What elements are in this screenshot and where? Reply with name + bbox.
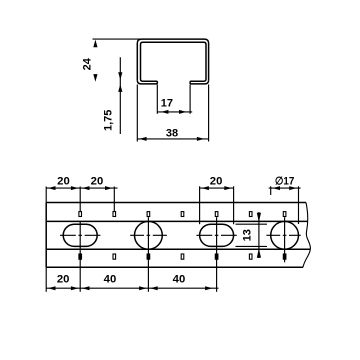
centerline vertical hole 1 — [147, 217, 149, 292]
top dimension chain 20 / 20 — [46, 187, 117, 203]
right lip end edge — [189, 81, 191, 84]
svg-text:13: 13 — [241, 229, 253, 241]
bottom dimension chain 20 / 40 / 40 — [46, 267, 218, 292]
centerline vertical hole 2 — [284, 217, 286, 262]
round hole 1 — [135, 221, 163, 249]
strip break line — [303, 203, 310, 268]
strip top edge line — [46, 202, 306, 204]
svg-text:24: 24 — [82, 57, 94, 70]
svg-text:17: 17 — [161, 98, 173, 110]
channel profile cross-section outer contour — [137, 39, 208, 80]
centerline vertical slot 1 / extension line — [79, 187, 81, 292]
small square holes top row — [79, 212, 286, 217]
svg-text:20: 20 — [57, 176, 70, 188]
svg-text:∅17: ∅17 — [275, 176, 295, 188]
slot hole 1 — [63, 224, 97, 246]
svg-text:40: 40 — [173, 273, 186, 285]
dimension 38 (profile width) — [137, 85, 208, 142]
strip upper lip line — [46, 220, 308, 222]
round hole 2 — [271, 221, 299, 249]
dimension Ø17 (round hole) — [269, 186, 301, 224]
right outer bend to lip bottom — [190, 80, 209, 84]
svg-text:40: 40 — [104, 273, 117, 285]
svg-text:20: 20 — [91, 176, 104, 188]
small square holes bottom row — [79, 254, 286, 259]
strip left end edge — [45, 203, 47, 268]
centerline horizontal hole 2 — [266, 234, 300, 236]
strip lower lip line — [46, 248, 310, 250]
dimension 17 (profile opening) — [157, 85, 192, 114]
svg-text:20: 20 — [210, 176, 223, 188]
svg-text:20: 20 — [57, 273, 70, 285]
extension line x=114.3 — [113, 187, 115, 212]
svg-text:38: 38 — [166, 127, 178, 139]
slot hole 2 — [200, 224, 234, 246]
centerline horizontal slot 2 — [196, 234, 236, 236]
centerline horizontal slot 1 — [60, 234, 100, 236]
dimension 24 — [93, 38, 141, 40]
centerline horizontal hole 1 — [130, 234, 167, 236]
dimension 1,75 — [119, 57, 121, 134]
left outer bend to lip bottom — [137, 80, 157, 84]
strip bottom edge line — [46, 266, 303, 268]
left lip end edge — [156, 81, 158, 84]
channel profile inner contour — [141, 42, 207, 81]
dimension 20 (slot length) — [200, 186, 234, 224]
centerline vertical slot 2 — [216, 217, 218, 292]
svg-text:1,75: 1,75 — [103, 110, 115, 131]
dimension 13 (slot width) — [236, 212, 268, 258]
